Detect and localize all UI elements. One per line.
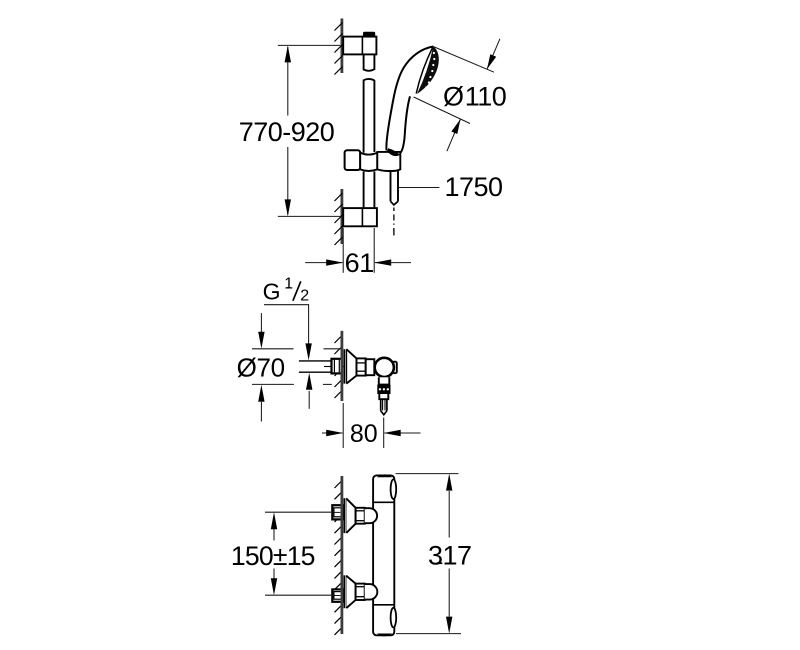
svg-text:Ø70: Ø70 (237, 352, 285, 382)
svg-text:317: 317 (428, 540, 472, 570)
svg-text:Ø110: Ø110 (443, 82, 506, 112)
svg-text:G: G (263, 279, 281, 305)
svg-text:1750: 1750 (445, 172, 503, 202)
svg-text:2: 2 (300, 287, 309, 304)
svg-text:770-920: 770-920 (239, 117, 335, 147)
svg-text:1: 1 (284, 275, 293, 292)
svg-text:80: 80 (350, 420, 378, 448)
svg-text:61: 61 (345, 248, 374, 278)
svg-text:150±15: 150±15 (231, 541, 315, 571)
